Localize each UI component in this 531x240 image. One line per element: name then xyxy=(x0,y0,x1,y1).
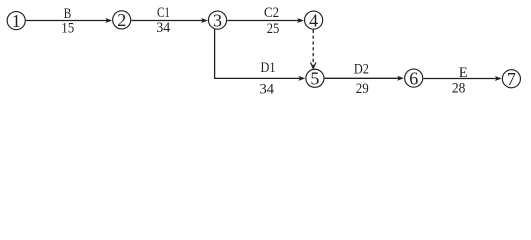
svg-text:E: E xyxy=(459,65,468,81)
svg-text:34: 34 xyxy=(156,20,170,36)
svg-text:1: 1 xyxy=(12,11,21,31)
svg-text:2: 2 xyxy=(117,10,126,30)
svg-text:4: 4 xyxy=(309,10,318,30)
svg-text:25: 25 xyxy=(267,21,280,37)
svg-text:D2: D2 xyxy=(354,61,369,77)
svg-text:5: 5 xyxy=(310,69,319,89)
svg-text:3: 3 xyxy=(213,10,222,30)
svg-text:6: 6 xyxy=(409,68,418,88)
svg-text:29: 29 xyxy=(356,81,369,97)
svg-text:34: 34 xyxy=(260,81,275,97)
svg-text:28: 28 xyxy=(452,80,466,96)
svg-text:D1: D1 xyxy=(261,60,276,76)
svg-text:7: 7 xyxy=(507,69,516,89)
svg-text:15: 15 xyxy=(61,21,74,37)
svg-text:B: B xyxy=(64,6,72,22)
svg-text:C1: C1 xyxy=(157,5,170,21)
svg-text:C2: C2 xyxy=(264,5,279,21)
